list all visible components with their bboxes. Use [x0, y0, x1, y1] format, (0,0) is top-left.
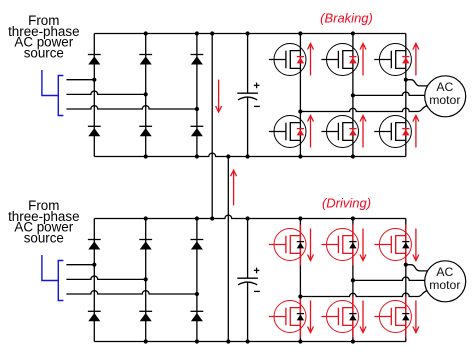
- transistor Q6 low-side MOSFET (driving inverter): [374, 297, 411, 338]
- label From three-phase AC power source (driving): [8, 198, 79, 245]
- wire inverter leg 3 (driving): [405, 219, 407, 342]
- node junction bottom rail x=247.6 (braking): [246, 154, 250, 158]
- node junction bottom rail x=145.7 (braking): [144, 154, 148, 158]
- diode lower D4 (driving rectifier): [88, 311, 101, 321]
- wire - DC rail with hop over tie line A (braking): [94, 153, 406, 156]
- node phase B tap (driving rectifier): [144, 277, 148, 281]
- diode lower D5 (driving rectifier): [139, 311, 152, 321]
- current arrow at Q5 (driving): [360, 301, 366, 333]
- wire rectifier leg 1 (driving): [93, 219, 95, 342]
- wire phase U output to motor with hops (braking): [300, 106, 427, 112]
- capacitor filter C (braking): [237, 34, 260, 157]
- node junction bottom rail x=228.3 (driving): [226, 339, 230, 343]
- current arrow at Q3 (driving): [413, 229, 419, 261]
- wire tie line B (-bus link): [227, 157, 229, 342]
- diode upper D1 (braking rectifier): [88, 55, 101, 65]
- node junction top rail x=196.9 (driving): [195, 216, 199, 220]
- diode lower D6 (braking rectifier): [191, 126, 204, 136]
- wire + DC rail (braking): [94, 33, 406, 35]
- node junction bottom rail x=352.9 (braking): [351, 154, 355, 158]
- wire rectifier leg 2 (driving): [145, 219, 147, 342]
- current arrow at Q1 (braking): [308, 44, 314, 76]
- node junction top rail x=145.7 (braking): [144, 31, 148, 35]
- node junction top rail x=247.6 (driving): [246, 216, 250, 220]
- svg-text:(Braking): (Braking): [320, 10, 373, 25]
- node inverter phase W tap (driving): [404, 263, 408, 267]
- wire phase A input (driving): [66, 264, 94, 266]
- node phase C tap (driving rectifier): [195, 292, 199, 296]
- wire + DC rail with hop over tie line B (driving): [94, 215, 406, 218]
- current arrow at Q2 (braking): [360, 44, 366, 76]
- node junction bottom rail x=300.4 (driving): [298, 339, 302, 343]
- wire phase B input with hop (driving): [66, 276, 145, 279]
- diode lower D6 (driving rectifier): [191, 311, 204, 321]
- node junction bottom rail x=196.9 (driving): [195, 339, 199, 343]
- node inverter phase U tap (driving): [298, 294, 302, 298]
- svg-text:motor: motor: [429, 93, 460, 107]
- node junction top rail x=212.2 (driving): [210, 216, 214, 220]
- wire rectifier leg 1 (braking): [93, 34, 95, 157]
- transistor Q3 high-side MOSFET (braking inverter): [374, 44, 411, 76]
- AC motor M (driving): [425, 261, 466, 302]
- node junction bottom rail x=300.4 (braking): [298, 154, 302, 158]
- wire - DC rail (driving): [94, 341, 406, 343]
- current arrow at Q2 (driving): [360, 229, 366, 261]
- diode upper D2 (braking rectifier): [139, 55, 152, 65]
- transistor Q1 high-side MOSFET (driving inverter): [269, 225, 306, 266]
- current arrow up along tie line B: [231, 170, 237, 205]
- capacitor filter C (driving): [237, 219, 260, 342]
- node inverter phase U tap (braking): [298, 109, 302, 113]
- wire inverter leg 1 (braking): [299, 34, 301, 157]
- transistor Q3 high-side MOSFET (driving inverter): [374, 225, 411, 266]
- node phase A tap (driving rectifier): [92, 263, 96, 267]
- wire phase V output to motor with hop (braking): [353, 92, 425, 95]
- node junction top rail x=212.2 (braking): [210, 31, 214, 35]
- diode upper D3 (driving rectifier): [191, 240, 204, 250]
- transistor Q1 high-side MOSFET (braking inverter): [269, 44, 306, 76]
- node junction bottom rail x=196.9 (braking): [195, 154, 199, 158]
- current arrow at Q4 (braking): [308, 116, 314, 148]
- three-phase source bracket (braking): [42, 70, 64, 116]
- wire phase W output to motor (braking): [406, 80, 428, 86]
- wire phase C input with hops (braking): [66, 106, 197, 109]
- diode lower D5 (braking rectifier): [139, 126, 152, 136]
- node inverter phase W tap (braking): [404, 78, 408, 82]
- diode upper D3 (braking rectifier): [191, 55, 204, 65]
- wire tie line A (+bus link): [211, 34, 213, 219]
- node junction top rail x=145.7 (driving): [144, 216, 148, 220]
- wire rectifier leg 2 (braking): [145, 34, 147, 157]
- wire inverter leg 2 (driving): [352, 219, 354, 342]
- transistor Q5 low-side MOSFET (driving inverter): [321, 297, 358, 338]
- node junction top rail x=300.4 (driving): [298, 216, 302, 220]
- current arrow at Q6 (driving): [413, 301, 419, 333]
- current arrow at Q4 (driving): [308, 301, 314, 333]
- diode lower D4 (braking rectifier): [88, 126, 101, 136]
- node junction top rail x=352.9 (driving): [351, 216, 355, 220]
- wire phase A input (braking): [66, 79, 94, 81]
- node junction top rail x=196.9 (braking): [195, 31, 199, 35]
- wire inverter leg 1 (driving): [299, 219, 301, 342]
- wire phase W output to motor (driving): [406, 265, 428, 271]
- wire inverter leg 3 (braking): [405, 34, 407, 157]
- wire phase V output to motor with hop (driving): [353, 277, 425, 280]
- node inverter phase V tap (braking): [351, 93, 355, 97]
- wire phase U output to motor with hops (driving): [300, 291, 427, 297]
- svg-text:motor: motor: [429, 278, 460, 292]
- node junction bottom rail x=145.7 (driving): [144, 339, 148, 343]
- current arrow at Q6 (braking): [413, 116, 419, 148]
- diode upper D2 (driving rectifier): [139, 240, 152, 250]
- node phase B tap (braking rectifier): [144, 92, 148, 96]
- current arrow at Q5 (braking): [360, 116, 366, 148]
- transistor Q4 low-side MOSFET (driving inverter): [269, 297, 306, 338]
- transistor Q6 low-side MOSFET (braking inverter): [374, 116, 411, 148]
- label From three-phase AC power source (braking): [8, 13, 79, 60]
- node phase C tap (braking rectifier): [195, 107, 199, 111]
- AC motor M (braking): [425, 76, 466, 117]
- transistor Q5 low-side MOSFET (braking inverter): [321, 116, 358, 148]
- transistor Q4 low-side MOSFET (braking inverter): [269, 116, 306, 148]
- current arrow at Q3 (braking): [413, 44, 419, 76]
- transistor Q2 high-side MOSFET (braking inverter): [321, 44, 358, 76]
- svg-text:source: source: [24, 45, 64, 60]
- node phase A tap (braking rectifier): [92, 78, 96, 82]
- wire rectifier leg 3 (driving): [196, 219, 198, 342]
- node junction bottom rail x=352.9 (driving): [351, 339, 355, 343]
- node inverter phase V tap (driving): [351, 278, 355, 282]
- transistor Q2 high-side MOSFET (driving inverter): [321, 225, 358, 266]
- three-phase source bracket (driving): [42, 255, 64, 301]
- node junction top rail x=352.9 (braking): [351, 31, 355, 35]
- wire phase C input with hops (driving): [66, 291, 197, 294]
- current arrow down along tie line A: [216, 80, 222, 112]
- wire rectifier leg 3 (braking): [196, 34, 198, 157]
- node junction bottom rail x=247.6 (driving): [246, 339, 250, 343]
- svg-text:(Driving): (Driving): [322, 195, 371, 210]
- wire phase B input with hop (braking): [66, 91, 145, 94]
- svg-text:source: source: [24, 230, 64, 245]
- wire inverter leg 2 (braking): [352, 34, 354, 157]
- node junction top rail x=300.4 (braking): [298, 31, 302, 35]
- node junction top rail x=247.6 (braking): [246, 31, 250, 35]
- current arrow at Q1 (driving): [308, 229, 314, 261]
- diode upper D1 (driving rectifier): [88, 240, 101, 250]
- node junction bottom rail x=228.3 (braking): [226, 154, 230, 158]
